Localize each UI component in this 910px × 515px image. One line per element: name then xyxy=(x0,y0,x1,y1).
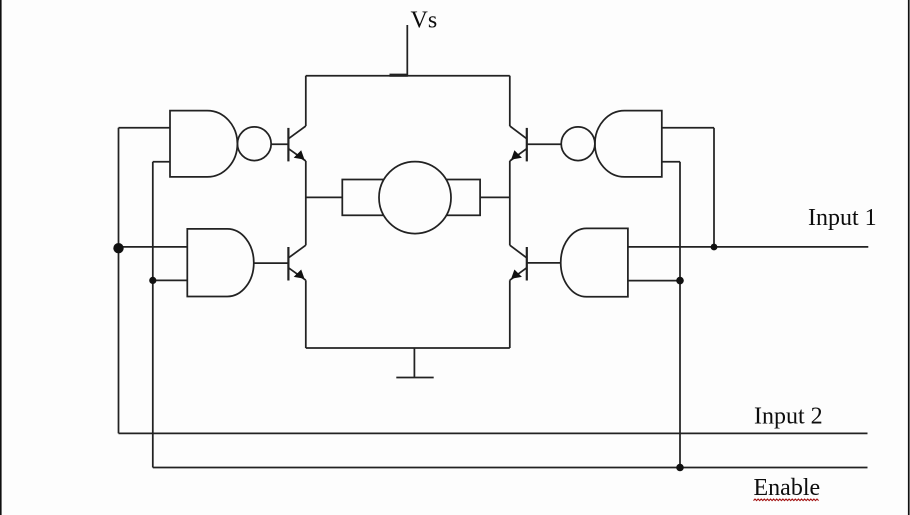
svg-text:Input 2: Input 2 xyxy=(754,404,823,430)
svg-text:Vs: Vs xyxy=(411,7,438,33)
svg-text:Enable: Enable xyxy=(754,475,821,501)
svg-text:Input 1: Input 1 xyxy=(808,205,877,231)
